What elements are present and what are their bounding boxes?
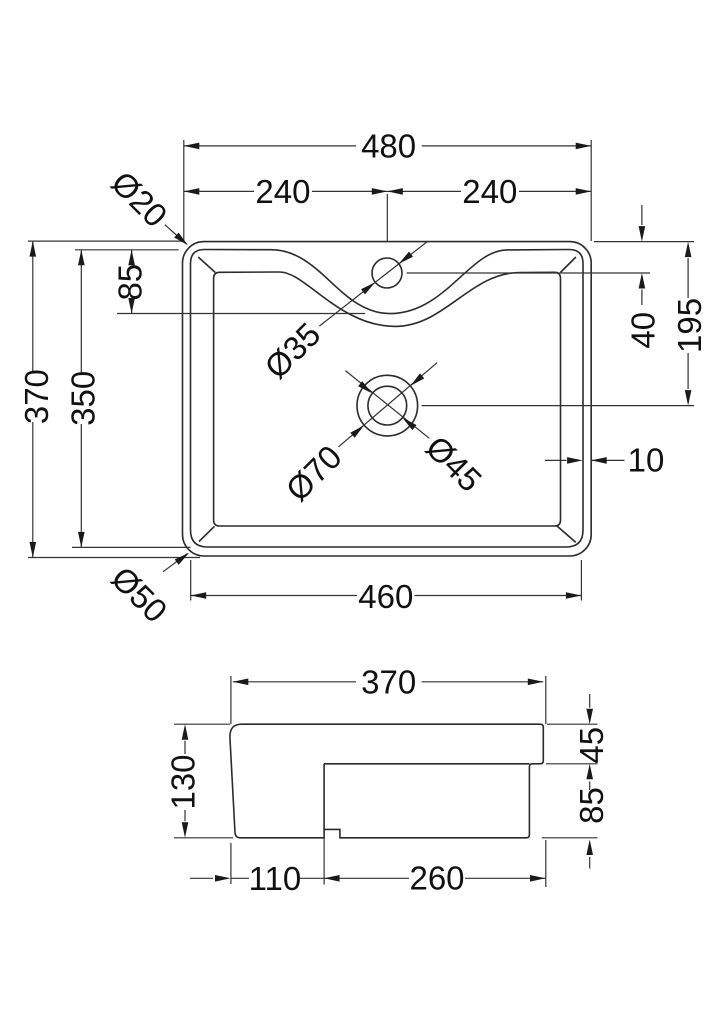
svg-text:10: 10 [628, 441, 665, 478]
svg-text:40: 40 [624, 312, 661, 349]
svg-text:85: 85 [573, 787, 610, 824]
svg-text:Ø50: Ø50 [104, 559, 174, 629]
svg-text:370: 370 [361, 663, 416, 700]
svg-text:45: 45 [573, 727, 610, 764]
svg-text:195: 195 [671, 298, 708, 353]
svg-text:350: 350 [65, 371, 102, 426]
svg-text:Ø70: Ø70 [279, 438, 349, 508]
svg-text:240: 240 [255, 173, 310, 210]
svg-text:370: 370 [18, 369, 55, 424]
svg-text:260: 260 [409, 859, 464, 896]
svg-text:Ø35: Ø35 [257, 315, 327, 385]
svg-text:Ø20: Ø20 [104, 164, 174, 234]
svg-text:130: 130 [165, 754, 202, 809]
svg-text:110: 110 [249, 860, 302, 897]
svg-text:460: 460 [358, 578, 413, 615]
svg-text:Ø45: Ø45 [419, 429, 489, 499]
svg-text:85: 85 [111, 264, 148, 301]
svg-text:240: 240 [462, 173, 517, 210]
svg-text:480: 480 [361, 128, 416, 165]
